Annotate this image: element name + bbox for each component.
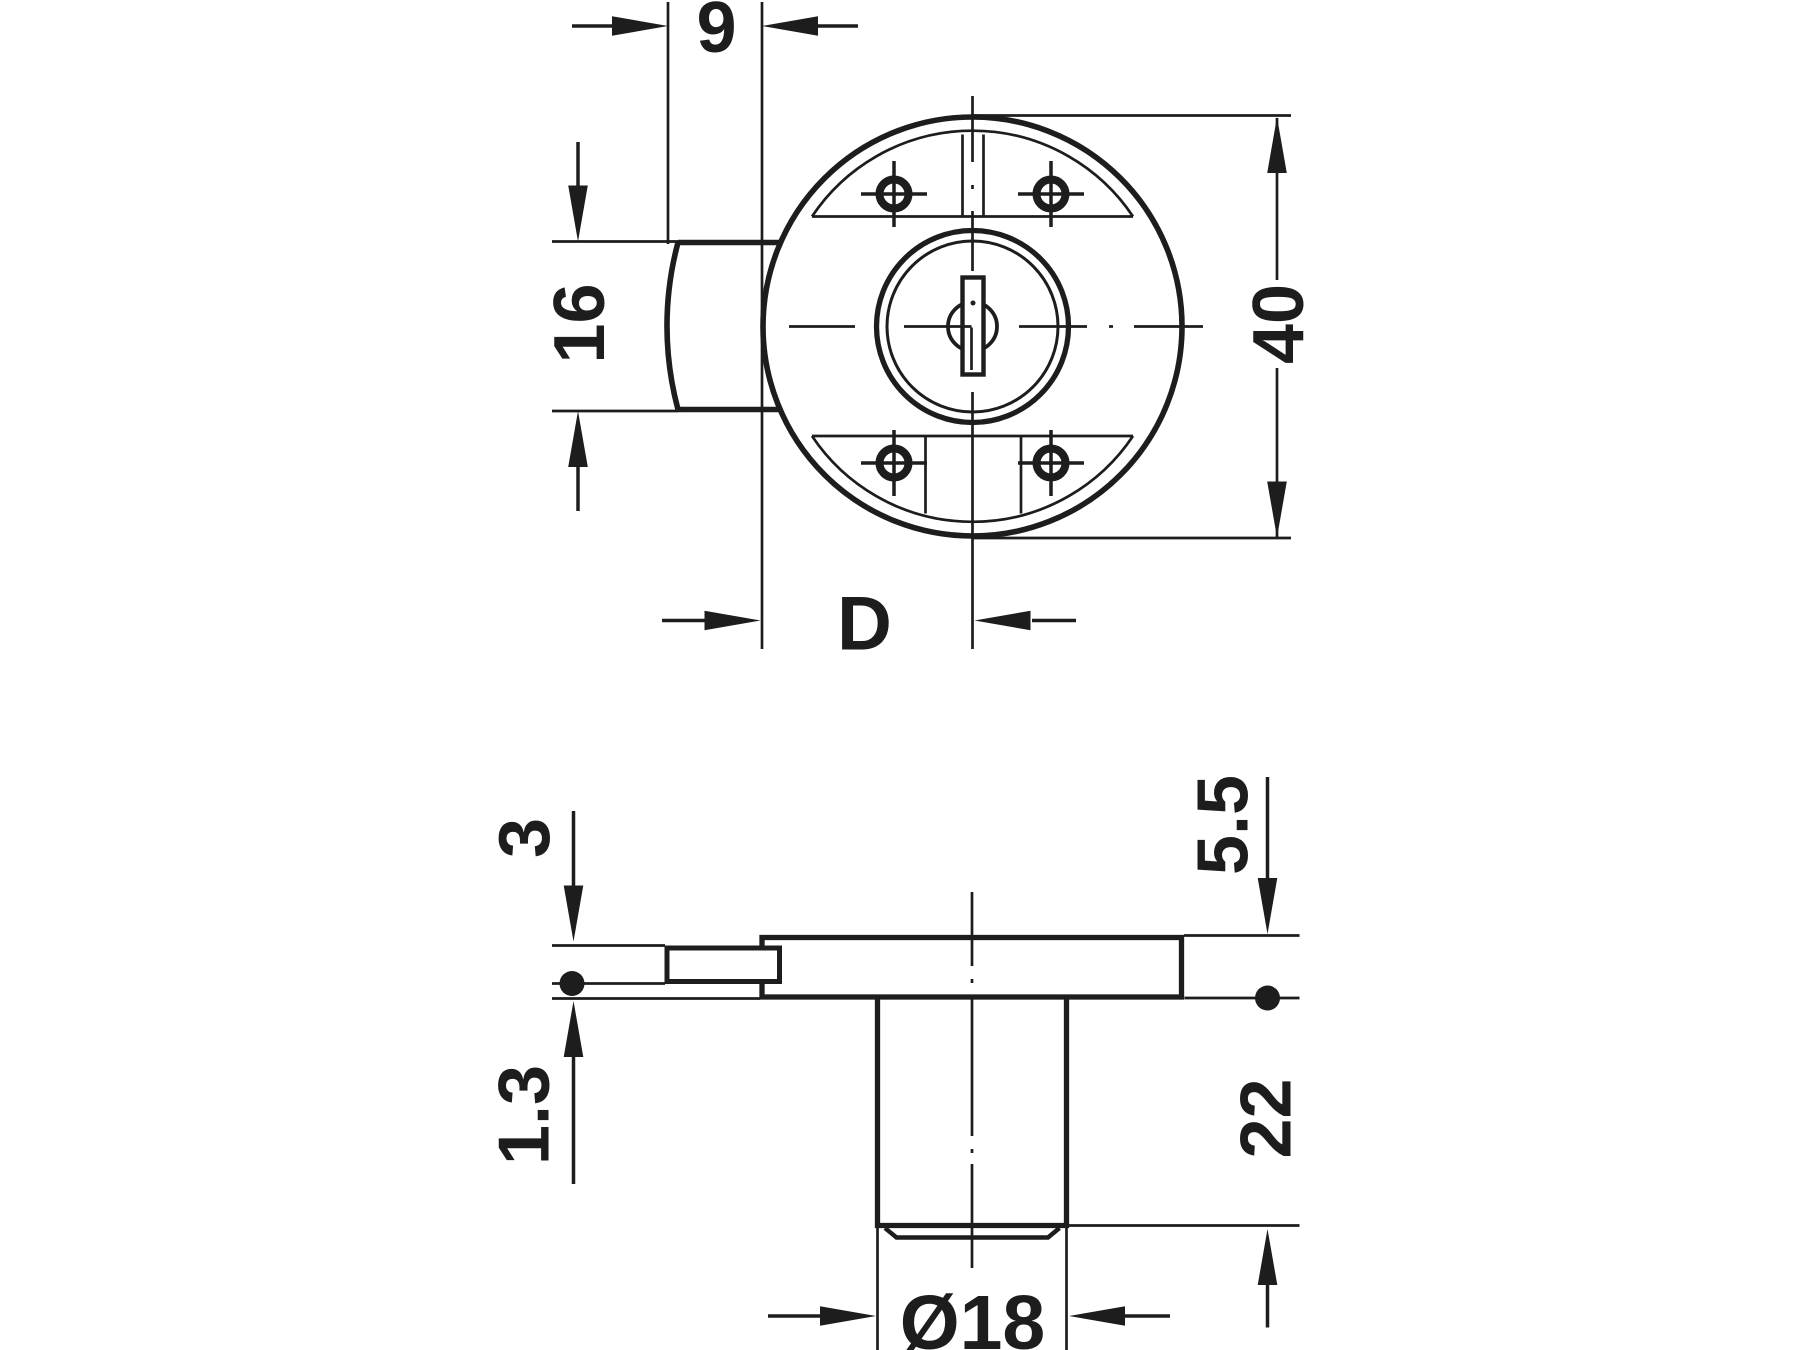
plate top extension line right <box>1184 934 1300 937</box>
dimension 40 bottom arrow <box>1267 482 1287 538</box>
dimension 16 bottom extension line <box>552 410 678 413</box>
datum dot right <box>1255 986 1280 1011</box>
dimension diameter 18 right arrow <box>1125 1314 1170 1318</box>
flange inner arc bottom <box>812 436 1133 522</box>
svg-text:40: 40 <box>1239 284 1319 364</box>
svg-text:1.3: 1.3 <box>485 1065 565 1165</box>
mounting tab bottom edge <box>678 407 782 413</box>
mounting tab top edge <box>678 240 782 246</box>
dimension 40 bottom extension line <box>973 537 1291 540</box>
dimension 9 right arrow <box>816 24 858 28</box>
bolt bottom extension line <box>552 982 665 985</box>
vertical centerline top view <box>971 96 974 649</box>
cylinder outer circle <box>877 231 1069 423</box>
dimension 40 top arrow <box>1267 117 1287 173</box>
top slot left line <box>961 135 964 217</box>
plate bottom extension line left <box>552 997 760 1000</box>
screw hole top-right <box>1018 161 1084 227</box>
bottom slot right line <box>1020 436 1023 514</box>
svg-text:22: 22 <box>1227 1078 1307 1158</box>
dimension D right arrow <box>1032 619 1076 623</box>
dimension 16 bottom arrow <box>576 467 580 511</box>
dimension 5.5 arrow <box>1266 777 1270 878</box>
mounting tab left arc <box>667 243 678 410</box>
bottom slot left line <box>924 436 927 514</box>
plate bottom extension line right <box>1185 997 1300 1000</box>
diameter 18 right extension line <box>1065 1228 1068 1350</box>
dimension 40 line upper segment <box>1276 118 1279 280</box>
dimension diameter 18 left arrow <box>768 1314 820 1318</box>
cylinder core protrusion <box>885 1228 1060 1238</box>
svg-text:3: 3 <box>485 818 565 858</box>
dimension 9 left extension line <box>667 2 670 244</box>
horizontal centerline top view <box>789 325 1203 328</box>
cylinder housing outline <box>878 999 1067 1226</box>
dimension 9 left arrow <box>572 24 614 28</box>
diameter 18 left extension line <box>876 1228 879 1350</box>
top chord line <box>812 215 1133 218</box>
dimension 16 top arrow <box>576 142 580 186</box>
dimension 9 right extension line <box>761 2 764 649</box>
dimension 40 line lower segment <box>1276 368 1279 537</box>
dimension 16 top extension line <box>552 240 678 243</box>
screw hole top-left <box>861 161 927 227</box>
lock body outer circle <box>763 117 1182 536</box>
lock bolt rectangle <box>667 948 780 982</box>
keyway slot rectangle <box>963 278 984 375</box>
bolt top extension line <box>552 944 665 947</box>
keyway step vertical line <box>970 328 973 371</box>
cylinder inner circle <box>887 241 1058 412</box>
svg-text:D: D <box>837 582 892 667</box>
keyway centerline dot <box>971 301 976 306</box>
flange inner arc top <box>812 131 1133 217</box>
screw hole bottom-right <box>1018 430 1084 496</box>
top slot right line <box>982 135 985 217</box>
svg-text:Ø18: Ø18 <box>900 1280 1046 1350</box>
flange plate rectangle <box>762 938 1182 998</box>
svg-text:9: 9 <box>696 0 736 68</box>
dimension D left arrow <box>662 619 706 623</box>
side view vertical centerline <box>971 892 974 1268</box>
dimension 40 top extension line <box>972 114 1291 117</box>
dimension 1.3 arrow <box>572 1057 576 1184</box>
svg-text:5.5: 5.5 <box>1184 775 1264 875</box>
cylinder small center circle <box>948 302 997 351</box>
cylinder bottom extension line right <box>1069 1224 1300 1227</box>
bottom chord line <box>812 435 1133 438</box>
svg-text:16: 16 <box>540 283 620 363</box>
datum dot left <box>560 971 585 996</box>
screw hole bottom-left <box>861 430 927 496</box>
dimension 22 arrow <box>1266 1285 1270 1328</box>
dimension 3 arrow <box>572 811 576 886</box>
